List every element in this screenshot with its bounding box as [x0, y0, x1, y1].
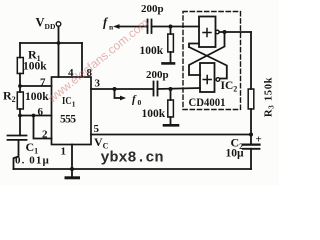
ground	[163, 62, 175, 65]
svg-text:100k: 100k	[140, 45, 164, 57]
wire right rail / resistor R3	[250, 32, 252, 89]
svg-text:0: 0	[138, 98, 142, 107]
wire cross B: gate2 out to gate1 in	[189, 47, 227, 79]
svg-text:IC2: IC2	[221, 80, 238, 94]
svg-text:CD4001: CD4001	[189, 97, 226, 109]
ground	[71, 169, 73, 177]
resistor R2	[19, 86, 21, 92]
capacitor C (200p top)	[147, 20, 149, 34]
resistor 100k top	[170, 27, 172, 35]
ground	[164, 124, 178, 127]
wire gate1 out	[219, 31, 251, 33]
svg-text:0. 01µ: 0. 01µ	[15, 155, 50, 167]
wire top rail	[20, 42, 82, 44]
svg-text:100k: 100k	[142, 108, 166, 120]
svg-text:5: 5	[94, 123, 100, 135]
wire VC pin5	[91, 134, 251, 136]
svg-text:200p: 200p	[146, 69, 169, 81]
svg-text:VC: VC	[94, 135, 109, 151]
svg-text:R3 150k: R3 150k	[264, 77, 276, 117]
wire pin8	[81, 43, 83, 77]
svg-text:www.elecfans.com.com: www.elecfans.com.com	[44, 16, 151, 106]
svg-text:10µ: 10µ	[226, 148, 245, 160]
wire pin2 branch	[34, 116, 52, 139]
capacitor C1	[19, 116, 21, 136]
resistor 100k middle	[170, 89, 172, 100]
svg-text:VDD: VDD	[36, 16, 56, 32]
svg-text:555: 555	[60, 114, 76, 126]
svg-text:f: f	[132, 94, 137, 106]
resistor R1	[19, 43, 21, 58]
svg-text:3: 3	[95, 78, 101, 90]
node pin2 branch junction	[32, 114, 36, 118]
wire cross A: gate1 out to gate2 in	[189, 32, 225, 75]
gate IC2b	[200, 63, 215, 92]
dashed box CD4001	[183, 12, 241, 110]
node mid 100k junction	[169, 87, 173, 91]
wire pin7	[20, 85, 52, 87]
wire gate1 input B	[189, 44, 199, 48]
svg-text:7: 7	[40, 77, 46, 89]
wire ground rail	[14, 168, 252, 170]
wire 200p to gate2	[158, 88, 201, 89]
svg-text:1: 1	[72, 100, 76, 109]
svg-text:n: n	[109, 23, 114, 32]
node R1/R2 junction	[18, 84, 22, 88]
svg-text:R2: R2	[3, 89, 16, 105]
svg-text:+: +	[256, 134, 262, 146]
svg-text:100k: 100k	[23, 61, 47, 73]
wire f0 stub	[115, 89, 122, 98]
svg-text:C1: C1	[26, 140, 39, 156]
wire VDD to rail	[58, 26, 60, 43]
wire pin4	[58, 43, 60, 77]
wire pin1	[71, 145, 73, 170]
capacitor C2	[243, 144, 260, 146]
wire pin6	[20, 115, 52, 117]
svg-text:2: 2	[42, 129, 48, 141]
svg-text:1: 1	[61, 146, 67, 158]
wire pin3	[91, 88, 153, 90]
node top 100k junction	[169, 25, 173, 29]
svg-text:ybx8.cn: ybx8.cn	[101, 150, 164, 167]
node f0 junction	[113, 87, 117, 91]
VDD terminal	[56, 22, 61, 27]
wire 200p to gate1	[152, 26, 200, 28]
op-amp U1 (IC1 555 box)	[52, 77, 92, 145]
gate IC2a	[199, 17, 216, 48]
svg-text:200p: 200p	[141, 3, 164, 15]
node R2/C1/pin6 junction	[18, 114, 22, 118]
capacitor C (200p middle)	[153, 82, 155, 96]
wire fn input	[117, 26, 148, 28]
svg-text:6: 6	[38, 106, 44, 118]
